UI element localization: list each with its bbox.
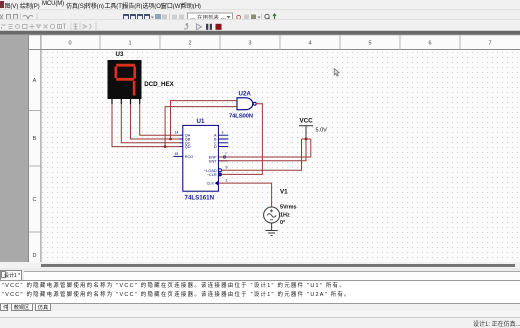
wire VCC bar <box>302 138 311 140</box>
mouse cursor <box>334 69 339 76</box>
canvas area svg <box>0 30 520 262</box>
warnings pane <box>0 280 520 303</box>
svg-text:RCO: RCO <box>185 155 193 159</box>
seven-segment display U3 body <box>108 60 142 99</box>
junction on QD wire <box>164 145 167 148</box>
U1 ENT pin stub <box>218 160 228 162</box>
U1 CLK edge triangle <box>215 181 219 186</box>
svg-text:C: C <box>33 197 37 203</box>
AC source V1 body <box>264 207 280 223</box>
ground <box>266 231 278 236</box>
U1 RCO pin stub <box>173 155 182 157</box>
bottom tabs <box>0 303 520 311</box>
nand gate U2A output bubble <box>253 102 256 105</box>
wire display pin2 to U1 QC <box>121 104 179 143</box>
svg-text:2: 2 <box>188 41 191 47</box>
svg-text:D: D <box>33 253 37 259</box>
svg-text:~CLR: ~CLR <box>207 173 217 177</box>
wire nand input 1 from QB <box>171 101 238 139</box>
svg-text:15: 15 <box>175 152 179 156</box>
wire display pin3 to U1 QB <box>131 104 180 139</box>
junction at VCC <box>305 138 308 141</box>
in-use list combobox <box>188 13 233 21</box>
wire nand output to ~CLR <box>222 104 263 175</box>
segment b (top-right) <box>133 67 136 79</box>
svg-text:DCD_HEX: DCD_HEX <box>144 81 174 88</box>
display pin 2 <box>120 99 122 104</box>
svg-text:U2A: U2A <box>239 91 252 98</box>
pin dot ENP <box>223 156 225 158</box>
svg-text:5.0V: 5.0V <box>316 128 328 134</box>
svg-text:A: A <box>33 78 37 84</box>
display pin 3 <box>130 99 132 104</box>
svg-text:7: 7 <box>488 41 491 47</box>
display pin 4 <box>139 99 141 104</box>
U1 ENP pin stub <box>218 156 228 158</box>
toolbar row 2 <box>0 19 520 31</box>
V1 value labels <box>280 205 297 227</box>
sheet <box>28 35 520 262</box>
document tab row <box>0 268 520 280</box>
svg-text:6: 6 <box>428 41 431 47</box>
horizontal scrollbar <box>0 262 520 268</box>
svg-text:0°: 0° <box>280 220 285 226</box>
U1 pin labels left <box>185 134 193 160</box>
svg-text:5: 5 <box>368 41 371 47</box>
svg-text:CLK: CLK <box>207 182 215 186</box>
grid dots <box>41 50 520 263</box>
svg-text:74LS00N: 74LS00N <box>229 114 253 120</box>
sheet frame lines <box>29 35 520 262</box>
wire display pin1 to U1 QD <box>112 104 179 147</box>
svg-text:1Hz: 1Hz <box>280 212 290 218</box>
top dark band <box>0 30 520 31</box>
wire VCC to ENP <box>219 139 311 157</box>
segment a (top) <box>116 64 135 67</box>
svg-text:ENT: ENT <box>209 159 217 163</box>
svg-text:VCC: VCC <box>300 118 314 125</box>
VCC power symbol <box>299 126 313 139</box>
wire V1 to ground <box>271 223 273 231</box>
menu bar <box>0 0 520 9</box>
svg-text:B: B <box>33 136 37 142</box>
junction on QB wire <box>169 138 172 141</box>
nand gate U2A body <box>237 98 253 110</box>
svg-text:9: 9 <box>226 165 228 169</box>
svg-text:74LS161N: 74LS161N <box>185 195 215 202</box>
svg-text:2: 2 <box>226 178 228 182</box>
wire VCC to ~LOAD <box>222 139 302 170</box>
svg-text:1: 1 <box>128 41 131 47</box>
workspace gray <box>0 35 28 263</box>
svg-text:QD: QD <box>185 145 191 149</box>
U1 ~CLR pin bubble <box>219 173 222 176</box>
U1 pin numbers <box>175 131 228 183</box>
counter U1 74LS161N body <box>183 125 219 191</box>
svg-text:14: 14 <box>175 131 179 135</box>
svg-text:0: 0 <box>68 41 71 47</box>
svg-text:3: 3 <box>248 41 251 47</box>
U1 pin labels right <box>204 134 217 186</box>
wire VCC to ENT <box>219 139 306 161</box>
U1 right pin stubs A B C D <box>218 135 228 146</box>
svg-text:5Vrms: 5Vrms <box>280 205 297 211</box>
V1 sine mark <box>267 214 276 218</box>
segment c (bottom-right) <box>133 81 136 96</box>
V1 minus mark <box>270 219 273 221</box>
U1 left pin stubs <box>179 135 183 146</box>
simulation controls <box>184 24 188 29</box>
svg-text:U1: U1 <box>197 118 205 125</box>
wire display pin4 to U1 QA <box>140 104 180 135</box>
svg-text:D: D <box>214 145 217 149</box>
svg-text:V1: V1 <box>280 189 288 196</box>
segment g (middle) <box>116 78 134 81</box>
ruler numbers <box>33 41 492 260</box>
svg-text:U3: U3 <box>116 51 124 58</box>
segment f (top-left) <box>115 67 118 79</box>
wire nand input 2 from QD <box>165 107 237 147</box>
toolbar row 1 <box>0 9 520 20</box>
display pin 1 <box>111 99 113 104</box>
strip + status bar <box>0 311 520 317</box>
svg-text:4: 4 <box>308 41 311 47</box>
svg-text:3: 3 <box>222 131 224 135</box>
V1 plus mark <box>270 209 273 212</box>
U1 ~LOAD pin bubble <box>219 169 222 172</box>
wire CLK to V1 <box>219 183 272 207</box>
